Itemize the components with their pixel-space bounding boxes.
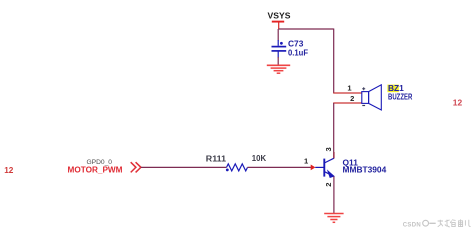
power symbol VSYS pin xyxy=(278,23,280,30)
buzzer minus mark xyxy=(362,105,365,107)
svg-text:BUZZER: BUZZER xyxy=(388,92,412,102)
port chevrons MOTOR_PWM xyxy=(131,162,141,172)
capacitor C73 pin-1 dot xyxy=(280,42,283,45)
wire pin2 down to Q11 collector xyxy=(333,103,335,158)
transistor emitter arrow xyxy=(328,171,334,178)
transistor Q11 xyxy=(315,158,334,176)
wire C73 to ground xyxy=(277,57,279,65)
wire VSYS down to C73 xyxy=(277,29,279,41)
wire buzzer branch down to pin 1 xyxy=(333,29,335,94)
svg-text:2: 2 xyxy=(324,182,333,186)
resistor R111 xyxy=(227,164,248,171)
wire R111 to Q11 base xyxy=(248,166,312,168)
highlight behind BZ xyxy=(387,85,398,93)
resistor R111 pin-1 dot xyxy=(226,169,229,172)
buzzer BZ1 symbol xyxy=(362,85,382,110)
svg-text:2: 2 xyxy=(350,94,354,103)
svg-text:MMBT3904: MMBT3904 xyxy=(343,165,387,175)
watermark CSDN @一条飞的鱼儿 xyxy=(403,219,471,228)
wire collector up xyxy=(333,152,335,158)
wire port to R111 xyxy=(141,166,227,168)
power symbol VSYS bar xyxy=(272,21,284,23)
wire emitter down to ground xyxy=(333,176,335,213)
svg-text:12: 12 xyxy=(4,165,13,175)
buzzer pin 2 wire xyxy=(333,102,362,104)
wire VSYS horizontal to buzzer branch xyxy=(279,28,334,30)
svg-text:1: 1 xyxy=(304,157,309,166)
buzzer plus mark xyxy=(362,87,365,90)
svg-text:VSYS: VSYS xyxy=(268,11,291,21)
svg-text:CSDN: CSDN xyxy=(403,223,421,229)
svg-text:MOTOR_PWM: MOTOR_PWM xyxy=(68,166,123,175)
base input arrow (red) xyxy=(311,165,316,171)
svg-text:12: 12 xyxy=(453,99,463,108)
ground (below Q11) xyxy=(324,214,343,223)
svg-text:3: 3 xyxy=(324,147,333,151)
buzzer pin 1 wire xyxy=(333,92,362,94)
svg-text:R111: R111 xyxy=(206,154,227,163)
ground (below C73) xyxy=(267,65,290,73)
svg-text:1: 1 xyxy=(347,84,352,93)
svg-text:10K: 10K xyxy=(252,154,267,163)
capacitor C73 xyxy=(272,40,287,58)
svg-text:0.1uF: 0.1uF xyxy=(288,47,308,57)
